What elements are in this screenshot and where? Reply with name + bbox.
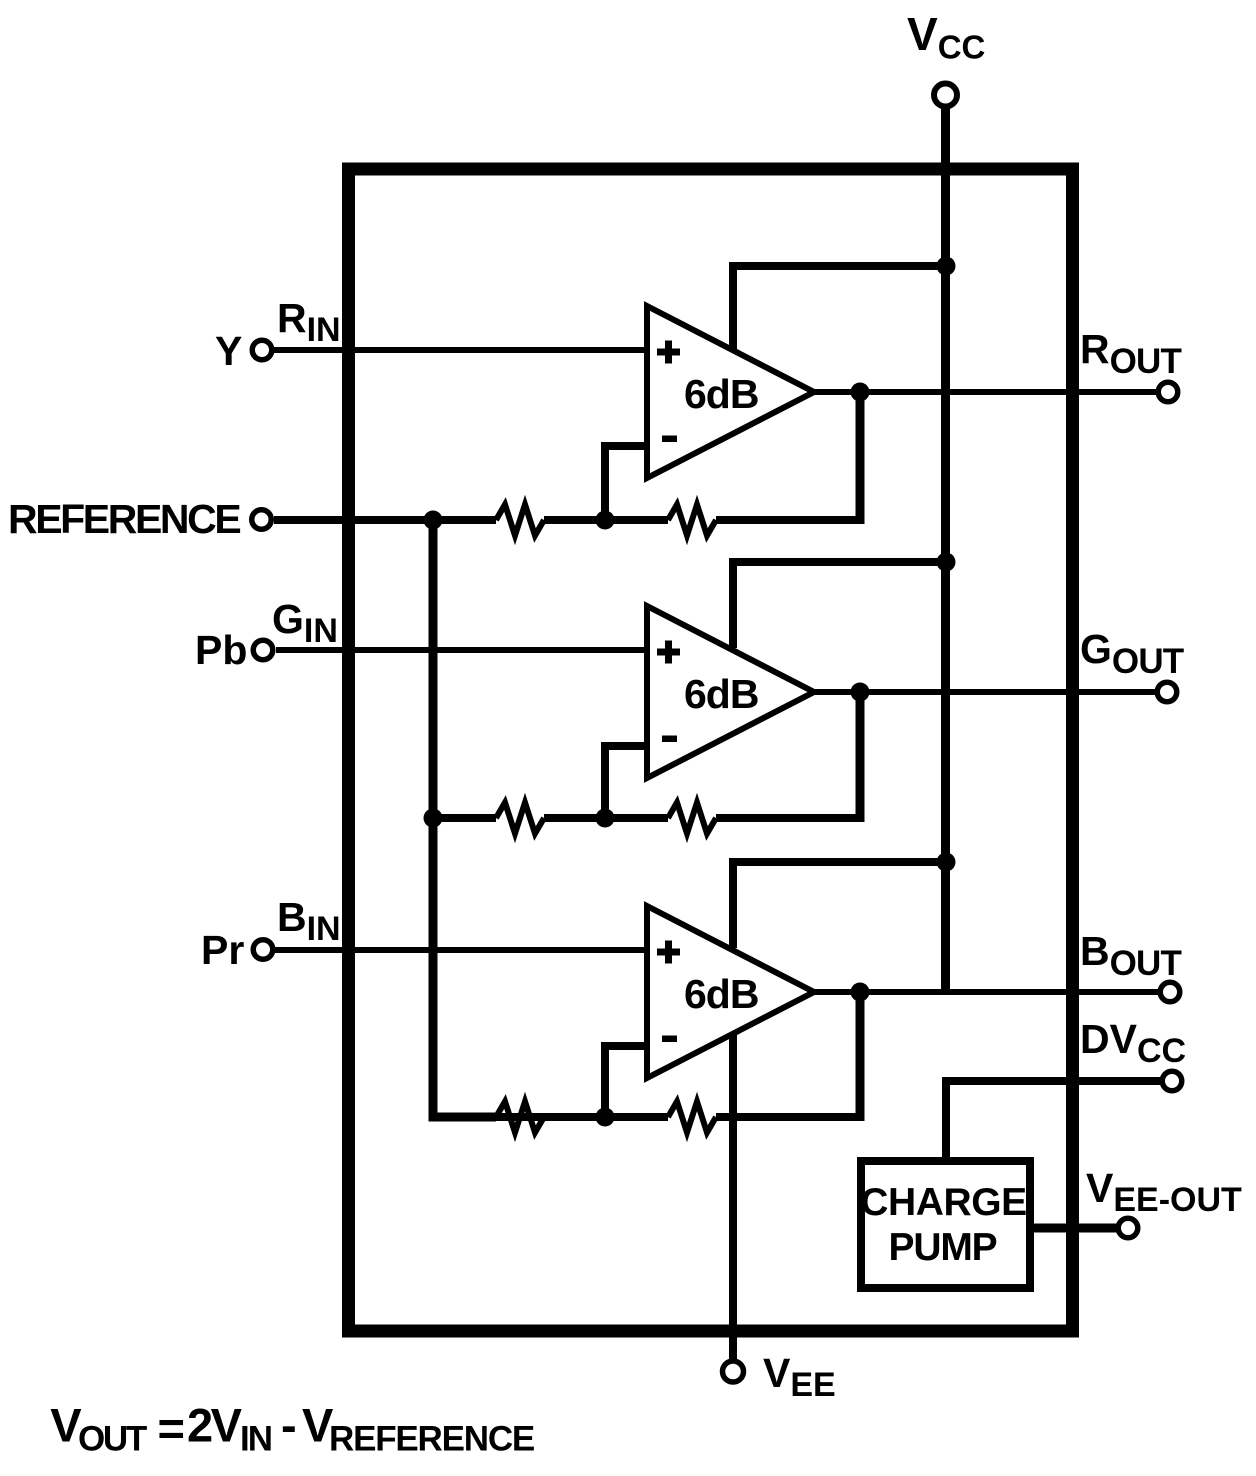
wire row2 feedback vertical from output [856,692,865,822]
svg-text:REFERENCE: REFERENCE [8,496,240,542]
charge pump U4 [861,1161,1030,1288]
terminal Pb [253,640,273,660]
op-amp U3 [647,906,814,1078]
node junction row1 mid [596,511,615,530]
op-amp U1 [647,306,814,478]
node junction row2 mid [596,809,615,828]
terminal VEE [723,1361,744,1382]
IC boundary box [349,169,1073,1331]
wire output Gout [814,689,1156,695]
terminal Pr [253,940,273,960]
op-amp U2 [647,606,814,778]
wire row3 feedback vertical from output [856,992,865,1121]
wire row3 reference/feedback [496,1113,668,1121]
svg-text:Pr: Pr [201,927,244,973]
resistor R3 [496,803,544,834]
wire VEE-OUT from charge pump [1034,1224,1117,1233]
wire output Bout [814,989,1159,995]
node junction Rout [851,383,870,402]
node junction Bout [851,983,870,1002]
svg-text:6dB: 6dB [684,971,758,1017]
terminal Y [252,340,272,360]
wire input Gin from Pb to op-amp U2 [276,647,650,653]
svg-text:Y: Y [215,328,242,374]
wire input Rin from Y to op-amp U1 [274,347,650,353]
resistor R5 [496,1102,544,1133]
wire Vcc to op-amp U1 supply [733,266,946,352]
node junction Vcc row3 [937,853,956,872]
wire row1 feedback vertical from output [856,392,865,524]
label formula Vout = 2Vin - Vreference [50,1399,534,1459]
node junction row2 ref [424,809,443,828]
wire row2 reference/feedback [433,814,496,822]
resistor R2 [668,505,716,536]
wire op-amp U3 inverting input feedback [605,1046,650,1117]
wire row1 reference/feedback [274,516,496,524]
terminal DVcc [1162,1071,1182,1091]
wire output Rout [814,389,1157,395]
resistor R4 [668,803,716,834]
wire Vcc to op-amp U2 supply [733,562,946,648]
node junction row3 mid [596,1108,615,1127]
svg-text:CHARGE: CHARGE [860,1181,1027,1224]
resistor R1 [496,505,544,536]
node junction Vcc row1 [937,257,956,276]
wire Vcc stem [941,108,950,992]
wire Vcc to op-amp U3 supply [733,862,946,948]
wire op-amp U2 inverting input feedback [605,746,650,818]
terminal REFERENCE [252,510,272,530]
node junction Gout [851,683,870,702]
svg-text:PUMP: PUMP [889,1226,997,1269]
wire DVcc from charge pump [946,1081,1161,1157]
wire op-amp U1 inverting input feedback [605,446,650,520]
svg-text:Pb: Pb [195,627,247,673]
wire input Bin from Pr to op-amp U3 [275,947,650,953]
node junction Vcc row2 [937,553,956,572]
resistor R6 [668,1102,716,1133]
terminal Vcc [934,84,957,107]
terminal VEE-OUT [1118,1218,1138,1238]
terminal Gout [1157,682,1177,702]
node junction row1 ref [424,511,443,530]
svg-text:6dB: 6dB [684,671,758,717]
wire REFERENCE distribution vertical [433,520,496,1117]
terminal Rout [1158,382,1178,402]
terminal Bout [1160,982,1180,1002]
svg-text:6dB: 6dB [684,371,758,417]
wire Vee stem from op-amp U3 to VEE pin [729,1030,737,1360]
